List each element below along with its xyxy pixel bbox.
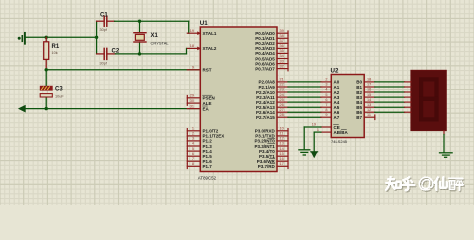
U2 pin 4 A2: [321, 88, 340, 95]
svg-text:7: 7: [325, 103, 327, 107]
U1 pin 24 P2.3/A11: [256, 93, 288, 100]
wire P2.3 to A3: [288, 96, 321, 98]
svg-text:32: 32: [280, 64, 284, 68]
svg-text:14: 14: [367, 98, 371, 102]
U1 pin 36 P0.3/AD3: [255, 44, 288, 51]
U1 pin 25 P2.4/A12: [256, 98, 288, 105]
U2 pin 11 B7: [356, 113, 375, 120]
svg-text:14: 14: [280, 147, 284, 151]
U1 pin 28 P2.7/A15: [256, 113, 288, 120]
U1 pin 4 P1.3: [187, 142, 212, 149]
svg-text:B7: B7: [356, 115, 362, 120]
U1 pin 26 P2.5/A13: [256, 103, 288, 110]
svg-text:2: 2: [325, 78, 327, 82]
display pin 1: [405, 81, 411, 83]
svg-text:C1: C1: [100, 12, 108, 18]
svg-text:12: 12: [367, 108, 371, 112]
U1 pin 3 P1.2: [187, 137, 212, 144]
U2 pin 15 B3: [356, 93, 375, 100]
svg-text:AB/BA: AB/BA: [334, 130, 349, 135]
ground symbol (U2 CE): [299, 150, 310, 155]
svg-text:XTAL1: XTAL1: [203, 31, 217, 36]
wire ground rail to EA: [26, 108, 201, 110]
wire B4 to display: [375, 101, 405, 103]
U2 pin 12 B6: [356, 108, 375, 115]
wire P2.2 to A2: [288, 91, 321, 93]
wire P2.6 to A6: [288, 111, 321, 113]
wire P2.7 to A7: [288, 116, 321, 118]
svg-text:U2: U2: [331, 68, 339, 75]
display pin 4: [405, 96, 411, 98]
display pin 7: [405, 111, 411, 113]
MCU U1 AT89C52 body: [198, 20, 277, 180]
svg-text:22: 22: [280, 83, 284, 87]
svg-text:21: 21: [280, 78, 284, 82]
U1 pin 35 P0.4/AD4: [255, 49, 288, 56]
svg-text:15: 15: [280, 152, 284, 156]
wire P2.4 to A4: [288, 101, 321, 103]
resistor R1: [44, 37, 60, 70]
U1 pin 34 P0.5/AD5: [255, 54, 288, 61]
wire C1-C2 left riser: [96, 21, 98, 54]
ground symbol (display): [440, 153, 453, 158]
svg-text:2: 2: [192, 132, 194, 136]
svg-text:3: 3: [325, 83, 327, 87]
svg-text:8: 8: [325, 108, 327, 112]
svg-text:11: 11: [367, 113, 371, 117]
U1 pin 31 EA: [187, 104, 209, 111]
svg-text:AT89C52: AT89C52: [198, 175, 217, 180]
svg-text:34: 34: [280, 54, 284, 58]
wire CE to ground: [304, 127, 321, 149]
svg-text:PSEN: PSEN: [203, 96, 215, 101]
wire P2.1 to A1: [288, 86, 321, 88]
display pin 3: [405, 91, 411, 93]
junction at C1/C2 riser: [95, 36, 98, 39]
U1 pin 2 P1.1/T2EX: [187, 132, 224, 139]
svg-text:P0.7/AD7: P0.7/AD7: [255, 66, 275, 71]
display pin 2: [405, 86, 411, 88]
svg-text:A7: A7: [334, 115, 340, 120]
svg-text:EA: EA: [203, 106, 210, 111]
buffer U2 74LS245 body: [331, 68, 365, 144]
svg-text:4: 4: [325, 88, 327, 92]
U2 pin 8 A6: [321, 108, 340, 115]
U1 pin 37 P0.2/AD2: [255, 39, 288, 46]
svg-text:16: 16: [280, 157, 284, 161]
U1 pin 30 ALE: [187, 99, 211, 106]
svg-text:30pf: 30pf: [100, 61, 108, 65]
U2 pin 14 B4: [356, 98, 375, 105]
svg-text:19: 19: [190, 29, 194, 33]
svg-text:30pf: 30pf: [100, 28, 108, 32]
wire P2.0 to A0: [288, 81, 321, 83]
svg-text:13: 13: [280, 142, 284, 146]
svg-text:9: 9: [192, 66, 194, 70]
display pin 6: [405, 106, 411, 108]
svg-text:10uF: 10uF: [55, 95, 64, 99]
U2 pin 6 A4: [321, 98, 340, 105]
svg-text:X1: X1: [151, 33, 159, 39]
U2 pin 1 AB/BA: [317, 128, 349, 135]
svg-text:23: 23: [280, 88, 284, 92]
svg-text:XTAL2: XTAL2: [203, 46, 217, 51]
U1 pin 11 P3.1/TXD: [255, 132, 288, 139]
wire B5 to display: [375, 106, 405, 108]
svg-text:17: 17: [367, 83, 371, 87]
U1 pin 1 P1.0/T2: [187, 127, 218, 134]
svg-text:29: 29: [190, 94, 194, 98]
svg-text:36: 36: [280, 44, 284, 48]
U1 pin 39 P0.0/AD0: [255, 29, 288, 36]
U1 pin 22 P2.1/A9: [259, 83, 288, 90]
7-segment display body: [411, 70, 446, 130]
U1 pin 21 P2.0/A8: [259, 78, 288, 85]
wire VCC rail: [26, 36, 97, 38]
junction crystal bottom: [138, 52, 141, 55]
wire AB/BA to terminal: [314, 132, 321, 152]
svg-text:ALE: ALE: [203, 101, 212, 106]
wire display common to ground: [443, 135, 445, 153]
svg-text:11: 11: [280, 132, 284, 136]
svg-text:C3: C3: [55, 87, 63, 93]
junction at R1 top: [45, 36, 48, 39]
wire C2 to XTAL2: [115, 48, 186, 54]
svg-text:3: 3: [192, 137, 194, 141]
svg-text:33: 33: [280, 59, 284, 63]
svg-text:U1: U1: [200, 20, 208, 27]
U1 pin 17 P3.7/RD: [258, 162, 288, 169]
wire B0 to display: [375, 81, 405, 83]
svg-text:8: 8: [192, 162, 194, 166]
svg-text:27: 27: [280, 108, 284, 112]
U1 pin 29 PSEN: [187, 94, 214, 101]
svg-text:35: 35: [280, 49, 284, 53]
U2 pin 9 A7: [321, 113, 340, 120]
U1 pin 12 P3.2/INT0: [255, 137, 288, 144]
watermark zhihu @xianzui: [386, 177, 464, 191]
U1 pin 6 P1.5: [187, 152, 212, 159]
U1 pin 5 P1.4: [187, 147, 212, 154]
svg-text:31: 31: [190, 104, 194, 108]
U1 pin 18 XTAL2: [187, 44, 217, 51]
display pin 5: [405, 101, 411, 103]
wire P2.5 to A5: [288, 106, 321, 108]
svg-text:12: 12: [280, 137, 284, 141]
U1 pin 15 P3.5/T1: [259, 152, 288, 159]
display common pin: [443, 131, 445, 135]
junction R1 bottom: [45, 68, 48, 71]
svg-text:P1.7: P1.7: [203, 164, 213, 169]
U1 pin 16 P3.6/WR: [257, 157, 288, 164]
svg-text:6: 6: [325, 98, 327, 102]
wire B2 to display: [375, 91, 405, 93]
svg-text:10: 10: [280, 127, 284, 131]
svg-text:9: 9: [325, 113, 327, 117]
svg-text:7: 7: [192, 157, 194, 161]
svg-text:6: 6: [192, 152, 194, 156]
capacitor C2: [97, 48, 120, 65]
U2 pin 13 B5: [356, 103, 375, 110]
U2 pin 17 B1: [356, 83, 375, 90]
svg-text:18: 18: [190, 44, 194, 48]
U2 pin 5 A3: [321, 93, 340, 100]
svg-text:5: 5: [325, 93, 327, 97]
svg-text:19: 19: [312, 123, 316, 127]
svg-text:RST: RST: [203, 68, 212, 73]
svg-text:37: 37: [280, 39, 284, 43]
svg-text:74LS245: 74LS245: [331, 139, 348, 144]
U2 pin 18 B0: [356, 78, 375, 85]
U2 pin 19 CE: [312, 123, 340, 130]
U1 pin 13 P3.3/INT1: [255, 142, 288, 149]
U2 pin 7 A5: [321, 103, 340, 110]
U2 pin 16 B2: [356, 88, 375, 95]
ground terminal arrow: [18, 105, 26, 113]
svg-text:1: 1: [317, 128, 319, 132]
svg-text:15: 15: [367, 93, 371, 97]
U1 pin 9 RST: [187, 66, 211, 73]
svg-text:16: 16: [367, 88, 371, 92]
U1 pin 8 P1.7: [187, 162, 212, 169]
U1 pin 7 P1.6: [187, 157, 212, 164]
capacitor C3: [40, 70, 64, 109]
U2 pin 2 A0: [321, 78, 340, 85]
U1 pin 10 P3.0/RXD: [255, 127, 288, 134]
svg-text:1: 1: [192, 127, 194, 131]
capacitor C1: [97, 12, 115, 32]
svg-text:25: 25: [280, 98, 284, 102]
wire B3 to display: [375, 96, 405, 98]
svg-text:30: 30: [190, 99, 194, 103]
U2 pin 3 A1: [321, 83, 340, 90]
U1 pin 23 P2.2/A10: [256, 88, 288, 95]
svg-text:P3.7/RD: P3.7/RD: [258, 164, 276, 169]
svg-text:18: 18: [367, 78, 371, 82]
U1 pin 27 P2.6/A14: [256, 108, 288, 115]
crystal X1: [134, 21, 169, 54]
U1 pin 19 XTAL1: [187, 29, 217, 36]
svg-text:5: 5: [192, 147, 194, 151]
svg-text:R1: R1: [52, 44, 60, 50]
junction crystal top: [138, 20, 141, 23]
wire C1 to XTAL1: [115, 21, 189, 33]
U1 pin 14 P3.4/T0: [259, 147, 288, 154]
svg-text:10k: 10k: [52, 51, 58, 55]
svg-text:39: 39: [280, 29, 284, 33]
wire B6 to display: [375, 111, 405, 113]
wire B1 to display: [375, 86, 405, 88]
power terminal: [18, 33, 25, 44]
svg-text:P2.7/A15: P2.7/A15: [256, 115, 275, 120]
svg-text:CRYSTAL: CRYSTAL: [151, 40, 170, 45]
power arrow terminal (down): [311, 152, 318, 158]
svg-text:4: 4: [192, 142, 194, 146]
svg-text:26: 26: [280, 103, 284, 107]
svg-text:17: 17: [280, 162, 284, 166]
svg-text:28: 28: [280, 113, 284, 117]
svg-text:13: 13: [367, 103, 371, 107]
junction C3 bottom: [45, 107, 48, 110]
svg-text:38: 38: [280, 34, 284, 38]
U1 pin 32 P0.7/AD7: [255, 64, 288, 71]
U1 pin 33 P0.6/AD6: [255, 59, 288, 66]
wire RST: [46, 69, 200, 71]
U1 pin 38 P0.1/AD1: [255, 34, 288, 41]
svg-text:24: 24: [280, 93, 284, 97]
